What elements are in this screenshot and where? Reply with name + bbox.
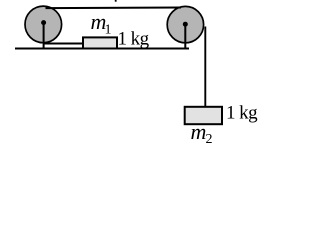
left pulley axle dot: [41, 20, 46, 25]
right pulley axle dot: [183, 22, 188, 27]
right pulley: [167, 6, 203, 42]
post of left pulley: [43, 23, 45, 49]
block m2: [185, 107, 222, 124]
svg-text:2: 2: [206, 132, 213, 147]
svg-text:m: m: [191, 119, 207, 144]
table surface: [15, 47, 189, 49]
svg-text:1 kg: 1 kg: [118, 28, 150, 49]
block m1: [83, 37, 117, 48]
left pulley: [25, 6, 62, 43]
wire: string over the top of both pulleys: [46, 7, 182, 10]
wire: string down from right pulley to m2: [204, 27, 206, 107]
svg-text:1: 1: [105, 23, 112, 38]
post of right pulley: [184, 24, 186, 49]
stray mark at top edge: [115, 0, 117, 2]
svg-text:1 kg: 1 kg: [226, 103, 258, 124]
wire: string from left pulley to block m1: [44, 43, 84, 45]
